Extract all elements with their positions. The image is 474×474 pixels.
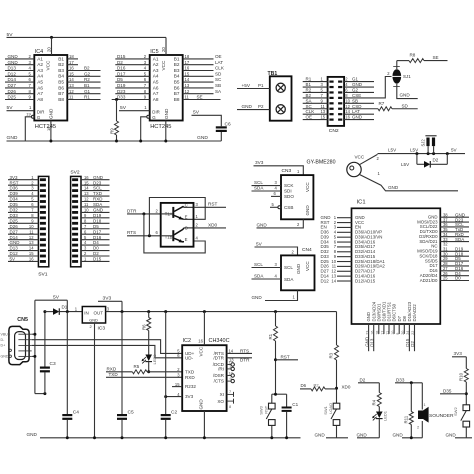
svg-text:SD: SD [215, 71, 222, 76]
svg-text:CN3: CN3 [282, 168, 292, 174]
solder jumper SJ1 [392, 69, 401, 83]
svg-text:D2: D2 [360, 377, 366, 382]
IC5 G enable pin with bubble [147, 115, 150, 118]
svg-text:DIR: DIR [152, 109, 160, 114]
svg-text:B1: B1 [174, 56, 180, 61]
diode D1 input protection [45, 311, 53, 313]
svg-text:D12: D12 [10, 251, 19, 256]
svg-text:CSD: CSD [352, 104, 362, 109]
svg-text:R2: R2 [314, 382, 319, 387]
resistor R7 with SD net on CSD row [378, 107, 392, 111]
svg-text:16: 16 [198, 338, 203, 343]
IC2 V3 pin to C2 [166, 396, 183, 398]
svg-text:13: 13 [29, 240, 34, 245]
svg-text:23: 23 [365, 331, 369, 335]
svg-text:D23: D23 [117, 89, 126, 94]
wire IC2 VCC from 3V3 rail [203, 312, 205, 346]
svg-text:RST: RST [281, 354, 290, 359]
svg-text:SD: SD [402, 103, 409, 108]
wire RST output of T1 [194, 206, 227, 208]
transistor T1A NPN [172, 207, 174, 218]
svg-text:18: 18 [69, 54, 74, 59]
svg-text:GND: GND [164, 108, 169, 119]
svg-text:GND: GND [305, 205, 310, 216]
svg-text:B5: B5 [58, 80, 64, 85]
svg-text:7: 7 [229, 389, 231, 394]
wire GND stub under SW2 [455, 437, 472, 439]
resistor R11 [410, 383, 412, 412]
svg-text:D12/AD15: D12/AD15 [355, 278, 376, 283]
wire IC2 GND pin down [203, 411, 205, 438]
svg-text:R1: R1 [84, 95, 90, 100]
svg-text:D27: D27 [8, 83, 17, 88]
svg-text:GND: GND [296, 263, 301, 274]
svg-text:15: 15 [321, 115, 326, 120]
svg-text:D15: D15 [93, 257, 102, 262]
wire IC5 VCC pin 20 [165, 37, 167, 55]
CN3 CSB pin 5 with bubble [278, 206, 281, 209]
resistor R9 pulldown [116, 100, 118, 122]
svg-text:LAT: LAT [215, 60, 223, 65]
svg-text:L5V: L5V [388, 148, 397, 153]
svg-text:GND: GND [27, 432, 38, 437]
svg-text:UD-: UD- [185, 355, 194, 360]
switch SW2 pushbutton [463, 405, 470, 411]
svg-text:R1: R1 [268, 333, 273, 339]
svg-text:11: 11 [321, 104, 326, 109]
svg-text:SW2: SW2 [453, 407, 458, 416]
svg-text:17: 17 [69, 60, 74, 65]
svg-text:20: 20 [401, 331, 405, 335]
capacitor C2 [165, 312, 167, 414]
wire 3V3 rail [106, 311, 337, 313]
svg-text:B8: B8 [58, 97, 64, 102]
svg-text:18: 18 [376, 331, 380, 335]
svg-text:IC1: IC1 [357, 199, 366, 205]
CN2 left wires odd pins [303, 81, 328, 83]
svg-text:15: 15 [84, 180, 89, 185]
wire GND stub under LED1 [357, 437, 379, 439]
wire SDA to CN4 pin 4 [252, 278, 282, 280]
IC4 right output wires B1-B8 [67, 58, 78, 60]
svg-text:G: G [37, 115, 41, 120]
svg-text:D19: D19 [117, 83, 126, 88]
svg-text:IC2: IC2 [183, 338, 192, 344]
svg-text:D2: D2 [117, 60, 123, 65]
svg-text:GND: GND [393, 432, 404, 437]
svg-text:13: 13 [84, 191, 89, 196]
svg-text:B1: B1 [58, 56, 64, 61]
svg-text:SC: SC [215, 77, 222, 82]
IC5 GND pin 10 wire [165, 121, 167, 142]
capacitor C3 [44, 312, 46, 367]
svg-text:B6: B6 [174, 85, 180, 90]
svg-text:D13: D13 [369, 338, 374, 347]
svg-text:R3: R3 [329, 352, 334, 358]
wire TB1 P2 GND [237, 109, 270, 111]
svg-text:R2: R2 [306, 87, 312, 92]
svg-text:D23: D23 [93, 180, 102, 185]
svg-text:9: 9 [396, 333, 400, 335]
svg-text:13: 13 [69, 83, 74, 88]
CN3 SDO pin 6 stub [271, 195, 281, 197]
svg-text:15: 15 [69, 71, 74, 76]
svg-text:GND: GND [1, 355, 9, 359]
svg-text:11: 11 [185, 95, 190, 100]
svg-text:A8: A8 [153, 97, 159, 102]
svg-text:B2: B2 [306, 93, 312, 98]
wire GND stub under sounder [402, 437, 422, 439]
svg-text:SCL: SCL [254, 180, 263, 185]
svg-text:SE: SE [433, 55, 439, 60]
svg-text:D16: D16 [117, 66, 126, 71]
IC4 left input wires A1-A8 [5, 58, 34, 60]
wire VBUS to 5V vertical [34, 300, 36, 393]
svg-text:14: 14 [345, 109, 350, 114]
svg-text:8: 8 [229, 404, 231, 409]
svg-text:CH340C: CH340C [209, 338, 230, 344]
svg-text:D2: D2 [433, 157, 439, 162]
svg-text:C6: C6 [225, 121, 231, 127]
svg-text:VCC: VCC [46, 60, 51, 71]
svg-text:R4: R4 [372, 399, 377, 405]
svg-text:RST: RST [10, 180, 19, 185]
resistor R4 [377, 393, 381, 407]
svg-text:D27: D27 [10, 229, 19, 234]
svg-text:G1: G1 [84, 89, 91, 94]
IC3 voltage regulator [82, 307, 105, 324]
wire DTR input [127, 213, 161, 215]
svg-text:13: 13 [185, 83, 190, 88]
CN2 right wires even pins [344, 81, 374, 83]
svg-text:/RI: /RI [218, 367, 224, 372]
svg-text:B3: B3 [58, 68, 64, 73]
svg-text:XD0: XD0 [342, 384, 351, 389]
wire fuse pin 1 GND [359, 174, 458, 191]
IC1 left pin wires 1-14 [337, 217, 352, 219]
svg-text:SC: SC [306, 104, 313, 109]
svg-text:B6: B6 [58, 85, 64, 90]
LED LED1 [378, 407, 380, 412]
svg-text:17: 17 [381, 331, 385, 335]
svg-text:D2/AD22: D2/AD22 [412, 304, 417, 322]
resistor R3 pullup [336, 312, 338, 345]
svg-text:SDA: SDA [254, 274, 264, 279]
wire SDA to CN3 SDI pin 4 [252, 190, 282, 192]
svg-text:CSE: CSE [352, 93, 361, 98]
wire DTR to IC2 pin 13 [227, 357, 252, 359]
svg-text:14: 14 [69, 77, 74, 82]
wire SJ1 pin 1 up to R8 [396, 61, 398, 70]
svg-text:5V: 5V [256, 241, 263, 246]
svg-text:TXD: TXD [185, 369, 195, 374]
svg-text:D18: D18 [93, 218, 102, 223]
svg-text:R10: R10 [458, 372, 463, 381]
svg-text:RXD: RXD [107, 366, 117, 371]
svg-text:SB: SB [352, 98, 358, 103]
svg-text:A4: A4 [153, 74, 159, 79]
svg-text:D26: D26 [10, 224, 19, 229]
svg-text:XO: XO [217, 399, 224, 404]
svg-text:A3: A3 [37, 68, 43, 73]
svg-text:11: 11 [84, 202, 89, 207]
svg-text:R7: R7 [379, 101, 385, 106]
svg-text:A2: A2 [153, 62, 159, 67]
svg-text:3V3: 3V3 [255, 160, 264, 165]
svg-text:C: C [185, 203, 188, 208]
wire DTR cross-couple bracket to T2 emitter [144, 214, 205, 253]
svg-text:19: 19 [26, 111, 30, 116]
svg-text:D0: D0 [93, 246, 99, 251]
svg-text:D35: D35 [443, 388, 452, 393]
svg-text:B8: B8 [174, 97, 180, 102]
switch SW1 LOAD pushbutton [333, 403, 340, 409]
svg-text:C4: C4 [73, 409, 79, 415]
capacitor C4 [66, 312, 68, 414]
svg-text:DIR: DIR [37, 109, 45, 114]
svg-text:VCC: VCC [161, 60, 166, 71]
svg-text:RST: RST [208, 202, 218, 207]
IC2 NC pins with circles [227, 364, 231, 366]
svg-text:D35: D35 [10, 202, 19, 207]
svg-text:R9: R9 [109, 128, 114, 134]
svg-text:T1B: T1B [165, 234, 173, 239]
svg-text:16: 16 [370, 331, 374, 335]
svg-text:GND: GND [93, 175, 104, 180]
svg-text:VCC: VCC [305, 261, 310, 271]
wire RTS to IC2 pin 14 [227, 352, 252, 354]
svg-text:A5: A5 [37, 80, 43, 85]
svg-text:D12: D12 [8, 71, 17, 76]
wire CN3 GND pin 2 [257, 219, 304, 228]
svg-text:R6: R6 [141, 324, 146, 330]
svg-text:9: 9 [230, 376, 232, 381]
svg-text:GND: GND [400, 93, 411, 98]
svg-text:12: 12 [84, 197, 89, 202]
wire L5V rail [378, 153, 466, 155]
resistor R2 on D6 net [300, 388, 311, 390]
svg-text:17: 17 [185, 60, 190, 65]
svg-text:GND: GND [89, 317, 98, 322]
svg-text:SDA: SDA [455, 237, 464, 242]
svg-text:R232: R232 [185, 384, 196, 389]
svg-text:SCL: SCL [284, 265, 293, 270]
wire RTS input [127, 235, 161, 237]
svg-text:DTR: DTR [127, 208, 137, 213]
svg-text:GND: GND [49, 108, 54, 119]
svg-text:D0: D0 [455, 276, 461, 281]
svg-text:G1: G1 [352, 77, 358, 82]
wire VCC pin 2 of fuse [359, 154, 377, 164]
svg-text:GND: GND [197, 135, 208, 141]
LED LED2 [148, 331, 150, 355]
svg-text:C: C [185, 225, 188, 230]
svg-text:P2: P2 [258, 104, 264, 109]
svg-text:20: 20 [161, 47, 166, 52]
solder jumper SJ2 [426, 138, 429, 147]
svg-text:IC4: IC4 [35, 49, 43, 55]
svg-text:A6: A6 [153, 85, 159, 90]
switch SW3 RST pushbutton [269, 403, 276, 409]
svg-text:IN: IN [84, 311, 88, 316]
svg-text:D14: D14 [10, 235, 19, 240]
wire XD0 output of T1 [194, 227, 227, 229]
svg-text:A7: A7 [153, 91, 159, 96]
connector SV1 16-pin header [38, 176, 48, 266]
svg-text:/CTS: /CTS [214, 379, 224, 384]
svg-text:SA: SA [215, 89, 222, 94]
wire TB1 P1 +5V [237, 88, 270, 90]
svg-text:A4: A4 [37, 74, 43, 79]
svg-text:D36: D36 [10, 186, 19, 191]
svg-text:10: 10 [391, 331, 395, 335]
svg-text:HCT245: HCT245 [150, 124, 171, 130]
svg-text:GND: GND [388, 185, 399, 190]
svg-text:SDA: SDA [254, 186, 264, 191]
svg-text:12: 12 [29, 235, 34, 240]
svg-text:14: 14 [185, 77, 190, 82]
svg-text:11: 11 [29, 229, 34, 234]
svg-text:SDA: SDA [93, 202, 102, 207]
svg-text:TXD: TXD [109, 372, 119, 377]
svg-text:B1: B1 [84, 83, 90, 88]
svg-text:A2: A2 [37, 62, 43, 67]
svg-text:E: E [185, 237, 188, 242]
svg-text:1: 1 [424, 402, 426, 407]
svg-text:B5: B5 [174, 80, 180, 85]
svg-text:D33: D33 [117, 95, 126, 100]
svg-text:B3: B3 [174, 68, 180, 73]
svg-text:OE: OE [215, 54, 222, 59]
svg-text:/DTR: /DTR [213, 355, 224, 360]
svg-text:11: 11 [229, 364, 233, 369]
wire USB D- to IC2 UD+ [32, 340, 183, 354]
svg-text:2: 2 [90, 324, 92, 329]
svg-text:OUT: OUT [94, 311, 104, 316]
svg-text:12: 12 [185, 89, 190, 94]
node XD0 junction [335, 387, 338, 390]
resistor R8 with SE net [397, 60, 409, 62]
svg-text:D32: D32 [10, 208, 19, 213]
svg-text:GND: GND [352, 115, 363, 120]
svg-text:G2: G2 [352, 87, 358, 92]
svg-text:L5V: L5V [401, 162, 410, 167]
svg-text:GND: GND [93, 208, 104, 213]
svg-text:11: 11 [69, 95, 74, 100]
svg-text:SOUNDER: SOUNDER [429, 413, 454, 419]
wire SCL to CN3 SCK pin 3 [252, 185, 282, 187]
svg-text:D17: D17 [117, 71, 126, 76]
svg-text:B4: B4 [174, 74, 180, 79]
svg-text:D25: D25 [8, 95, 17, 100]
wire SCL to CN4 pin 3 [252, 267, 282, 269]
svg-text:L5V: L5V [410, 148, 419, 153]
svg-text:B2: B2 [58, 62, 64, 67]
wire 5V bottom link [35, 393, 45, 395]
svg-text:LAT: LAT [352, 109, 360, 114]
svg-text:CLK: CLK [215, 66, 224, 71]
svg-text:G2: G2 [84, 71, 91, 76]
svg-text:D6: D6 [301, 383, 307, 388]
svg-text:5V: 5V [10, 257, 15, 262]
svg-text:D5: D5 [93, 224, 99, 229]
svg-text:D13: D13 [8, 66, 17, 71]
svg-text:GND: GND [242, 104, 253, 109]
svg-text:R8: R8 [410, 53, 416, 58]
svg-text:D39: D39 [10, 191, 19, 196]
IC1 bottom pin stubs [368, 324, 370, 351]
svg-text:D19: D19 [93, 213, 102, 218]
svg-text:D4: D4 [93, 240, 99, 245]
svg-text:SB: SB [215, 83, 221, 88]
svg-text:SE: SE [197, 94, 203, 99]
svg-text:R5: R5 [134, 364, 140, 369]
node RST junction [274, 358, 277, 361]
svg-text:LOAD: LOAD [328, 403, 333, 414]
svg-text:16: 16 [29, 257, 34, 262]
svg-text:C1: C1 [292, 402, 298, 407]
svg-text:CLK: CLK [306, 109, 315, 114]
svg-text:XD0: XD0 [208, 222, 218, 227]
svg-text:14: 14 [229, 348, 234, 353]
svg-text:LED1: LED1 [382, 410, 387, 421]
svg-text:15: 15 [185, 71, 190, 76]
svg-text:P1: P1 [258, 83, 264, 88]
svg-text:12: 12 [69, 89, 74, 94]
svg-text:14: 14 [331, 278, 336, 283]
svg-text:SA: SA [306, 98, 312, 103]
capacitor C5 [121, 312, 123, 414]
svg-text:SCK: SCK [284, 183, 293, 188]
svg-text:A1: A1 [153, 56, 159, 61]
svg-text:OE: OE [306, 115, 312, 120]
svg-text:GND: GND [257, 222, 268, 227]
svg-text:A5: A5 [153, 80, 159, 85]
svg-text:SV1: SV1 [38, 272, 48, 278]
transistor pair box T1 [161, 203, 194, 247]
svg-text:D+: D+ [1, 344, 6, 348]
svg-text:SDI: SDI [284, 189, 292, 194]
svg-text:GND: GND [252, 295, 263, 300]
svg-text:13: 13 [321, 109, 326, 114]
svg-text:LED2: LED2 [152, 354, 157, 365]
connector SV2 16-pin header [71, 176, 81, 266]
svg-text:G: G [152, 115, 156, 120]
svg-text:+5V: +5V [242, 83, 251, 88]
node junction 5V to IC4 VCC [50, 36, 53, 39]
IC4 G enable pin with inversion bubble [32, 115, 35, 118]
svg-text:CN2: CN2 [329, 128, 339, 134]
svg-text:10: 10 [29, 224, 34, 229]
svg-text:TXD: TXD [93, 191, 103, 196]
svg-text:14: 14 [29, 246, 34, 251]
wire SJ1 pin 3 to GND stub [397, 84, 418, 99]
svg-text:GND: GND [446, 432, 457, 437]
svg-text:A3: A3 [153, 68, 159, 73]
svg-text:SDO: SDO [284, 194, 294, 199]
IC5 right output wires OE LAT CLK SD SC SB SA SE [183, 58, 214, 60]
resistor R1 pullup RST [275, 312, 277, 326]
svg-text:A6: A6 [37, 85, 43, 90]
svg-text:RTS: RTS [127, 230, 136, 235]
svg-text:R11: R11 [404, 415, 409, 423]
svg-text:B1: B1 [306, 82, 312, 87]
svg-text:C5: C5 [128, 409, 134, 415]
svg-text:RTS: RTS [240, 348, 249, 353]
svg-text:16: 16 [185, 66, 190, 71]
svg-text:GY-BME280: GY-BME280 [307, 160, 336, 166]
svg-text:D5: D5 [117, 77, 123, 82]
